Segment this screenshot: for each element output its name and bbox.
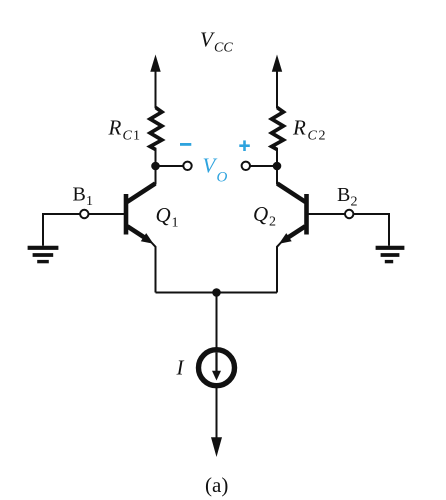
label minus (cyan)	[180, 143, 191, 146]
transistor Q2 base wire	[309, 213, 346, 215]
svg-text:1: 1	[86, 194, 93, 209]
svg-text:1: 1	[172, 216, 179, 231]
svg-text:(a): (a)	[205, 473, 228, 497]
node dot left collector	[151, 162, 160, 171]
svg-text:CC: CC	[214, 41, 233, 56]
label Q1	[156, 203, 179, 231]
power arrow right (to VCC)	[272, 55, 282, 109]
emitter bus wire	[156, 292, 278, 294]
svg-text:2: 2	[269, 215, 276, 230]
ground right	[376, 248, 405, 262]
wire RC2 bottom to node	[276, 148, 278, 166]
transistor Q2 bar	[304, 194, 309, 235]
wire B2 to ground	[353, 214, 389, 246]
transistor Q1 bar	[124, 194, 129, 235]
svg-text:Q: Q	[156, 203, 171, 227]
transistor Q2 collector wire	[277, 166, 306, 202]
label Q2	[253, 202, 276, 230]
svg-text:C: C	[308, 129, 318, 144]
output arrow down	[211, 437, 222, 457]
label VCC	[200, 28, 233, 56]
power arrow left (to VCC)	[150, 55, 160, 109]
svg-text:R: R	[292, 116, 306, 140]
svg-text:V: V	[203, 154, 218, 178]
svg-text:B: B	[73, 184, 86, 206]
svg-text:Q: Q	[253, 202, 268, 226]
label B2	[337, 184, 358, 210]
label RC1	[108, 116, 141, 144]
node dot right collector	[273, 162, 282, 171]
current source I	[199, 350, 235, 386]
transistor Q1 base wire	[88, 213, 124, 215]
junction node dot	[212, 288, 221, 297]
wire current source to output arrow	[216, 387, 218, 441]
wire node to left output terminal	[156, 165, 184, 167]
wire junction to current source	[216, 293, 218, 349]
label plus (cyan)	[239, 140, 250, 151]
transistor Q2 emitter with arrow	[277, 226, 305, 292]
svg-text:I: I	[176, 356, 185, 380]
ground left	[28, 248, 59, 262]
svg-text:O: O	[217, 170, 228, 186]
svg-text:V: V	[200, 28, 215, 52]
terminal circle Vo plus	[242, 162, 250, 170]
terminal circle Vo minus	[183, 162, 191, 170]
resistor RC1	[150, 108, 162, 150]
wire B1 to ground	[43, 214, 81, 246]
label RC2	[292, 116, 326, 144]
terminal circle B1	[80, 210, 88, 218]
terminal circle B2	[345, 210, 353, 218]
svg-text:2: 2	[319, 129, 326, 144]
transistor Q1 collector wire	[127, 166, 156, 202]
svg-text:C: C	[123, 129, 133, 144]
transistor Q1 emitter with arrow	[127, 226, 155, 292]
svg-text:B: B	[337, 184, 350, 206]
wire node to right output terminal	[250, 165, 278, 167]
svg-text:1: 1	[133, 129, 140, 144]
wire RC1 bottom to node	[155, 148, 157, 166]
resistor RC2	[272, 108, 284, 150]
label Vo (cyan)	[203, 154, 228, 186]
svg-text:2: 2	[351, 195, 358, 210]
label B1	[73, 184, 94, 210]
svg-text:R: R	[108, 116, 122, 140]
